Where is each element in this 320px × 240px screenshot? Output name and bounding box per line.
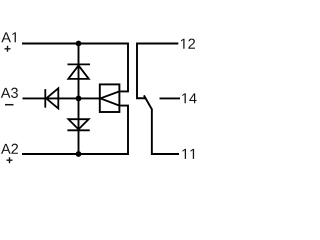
terminal label 14 — [182, 93, 196, 103]
node junction A3 — [76, 96, 82, 102]
node junction A1 — [76, 41, 82, 47]
wire contact 12 with fixed contact foot — [137, 44, 178, 99]
relay drive box U1 — [100, 84, 120, 112]
polarity + under A1 — [5, 46, 11, 52]
polarity - under A3 — [5, 104, 14, 106]
contact arm (NC changeover) to terminal 11 — [144, 95, 179, 154]
diode D2 upper (points up to A1) — [68, 64, 91, 79]
terminal label 12 — [181, 39, 195, 49]
diode D3 lower (points down to A2) — [67, 119, 89, 130]
diode D1 series in A3 line (cathode bar left) — [45, 88, 58, 108]
terminal label A3 — [1, 88, 18, 98]
terminal label A2 — [1, 144, 18, 154]
wire A2 (to coil box lower stub) — [22, 106, 128, 154]
wire coil bus vertical — [78, 44, 80, 155]
drive symbol (triangle flare inside box) — [100, 91, 119, 105]
terminal label A1 — [1, 32, 16, 42]
wire contact 14 (NO) — [160, 97, 181, 99]
wire A3 (to coil box left) — [23, 97, 101, 99]
wire A1 (to coil box upper stub) — [22, 44, 128, 92]
terminal label 11 — [182, 149, 194, 159]
node junction A2 — [76, 151, 82, 157]
polarity + under A2 — [7, 157, 13, 163]
